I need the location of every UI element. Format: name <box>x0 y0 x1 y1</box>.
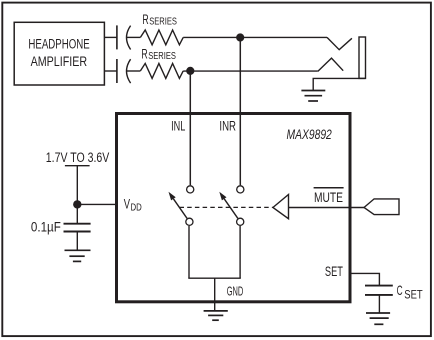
svg-text:MUTE: MUTE <box>314 190 343 205</box>
switch S2 (INR) arm with arrow <box>219 192 238 219</box>
wire: S2 bottom to GND bus <box>239 226 241 278</box>
connector plug pin (top channel) <box>116 25 118 49</box>
svg-text:AMPLIFIER: AMPLIFIER <box>31 54 88 69</box>
connector jack contact (bottom channel) <box>127 59 131 83</box>
resistor RSERIES (top) <box>140 30 183 45</box>
label RSERIES (top) <box>142 12 177 27</box>
svg-text:INL: INL <box>171 118 186 133</box>
wire: connector to RSERIES bottom <box>127 70 141 72</box>
svg-text:SERIES: SERIES <box>148 51 176 62</box>
wire: S1 bottom to GND bus <box>188 226 190 278</box>
switch S1 (INL) arm with arrow <box>169 192 188 219</box>
svg-text:DD: DD <box>131 203 142 214</box>
svg-text:INR: INR <box>219 118 236 133</box>
headphone amplifier box <box>14 22 104 85</box>
connector plug pin (bottom channel) <box>116 59 118 83</box>
connector jack contact (top channel) <box>127 26 131 50</box>
svg-text:SET: SET <box>404 288 423 302</box>
wire: supply to VDD node <box>76 166 78 224</box>
node: INR tap junction <box>236 33 244 41</box>
wire: INL vertical into IC <box>189 71 191 185</box>
headphone jack tip contact <box>327 37 352 49</box>
wire: GND pin drop <box>214 278 216 311</box>
switch S2 (INR) bottom contact <box>237 218 244 225</box>
switch S2 (INR) top contact <box>237 186 244 193</box>
wire: jack sleeve to ground <box>313 78 365 90</box>
capacitor CSET <box>365 286 393 295</box>
svg-text:SERIES: SERIES <box>149 16 177 27</box>
IC U1 MAX9892 body <box>117 114 351 302</box>
headphone jack ring contact <box>318 58 343 71</box>
ground (GND pin) <box>204 311 228 320</box>
capacitor 0.1uF <box>64 224 91 232</box>
pin label MUTE with overbar <box>314 188 344 205</box>
ground (jack) <box>301 91 325 102</box>
node: VDD junction <box>73 200 81 208</box>
label RSERIES (bottom) <box>141 47 176 62</box>
buffer driver triangle <box>273 195 289 219</box>
switch S1 (INL) bottom contact <box>186 218 193 225</box>
MUTE input tag <box>364 199 399 215</box>
svg-text:1.7V TO 3.6V: 1.7V TO 3.6V <box>46 150 110 165</box>
wire: amp bottom output to connector <box>104 70 117 72</box>
switch S1 (INL) top contact <box>187 186 194 193</box>
svg-text:GND: GND <box>227 283 244 298</box>
wire: VDD node to pin <box>77 203 115 205</box>
label CSET <box>397 282 424 302</box>
ground (CSET) <box>366 313 390 324</box>
svg-text:R: R <box>141 47 147 62</box>
svg-text:0.1µF: 0.1µF <box>31 218 61 234</box>
wire: connector to RSERIES top <box>127 36 141 38</box>
wire: MUTE input to buffer <box>289 207 365 209</box>
svg-text:MAX9892: MAX9892 <box>287 127 333 142</box>
resistor RSERIES (bottom) <box>140 63 183 78</box>
wire: CSET to ground <box>378 295 380 313</box>
headphone jack sleeve <box>359 37 366 78</box>
svg-text:HEADPHONE: HEADPHONE <box>28 36 89 51</box>
wire: bottom rail to jack ring contact <box>183 70 318 72</box>
svg-text:SET: SET <box>325 263 343 279</box>
wire: INR vertical into IC <box>239 38 241 186</box>
supply rail stub <box>65 165 90 167</box>
dashed control line <box>180 206 273 208</box>
wire: GND bus <box>188 277 241 279</box>
wire: SET pin to CSET <box>350 273 379 285</box>
node: INL tap junction <box>186 67 194 75</box>
wire: top rail to jack tip contact <box>183 36 327 38</box>
wire: amp top output to connector <box>104 36 117 38</box>
wire: capacitor to ground <box>76 232 78 251</box>
svg-text:C: C <box>397 282 403 298</box>
svg-text:R: R <box>142 12 148 27</box>
ground (0.1uF) <box>65 250 91 261</box>
pin label VDD <box>124 196 142 214</box>
